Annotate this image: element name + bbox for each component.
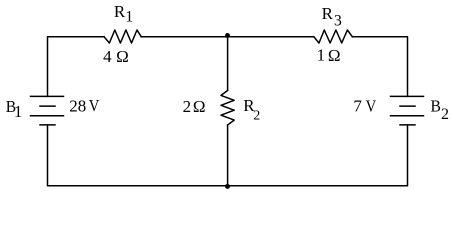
battery B1 plate short	[40, 105, 55, 107]
wire top-right: R3 to right node	[352, 37, 407, 97]
svg-text:Ω: Ω	[193, 97, 206, 116]
svg-text:1: 1	[317, 46, 326, 65]
svg-text:V: V	[89, 96, 100, 115]
wire: R1 to top node	[141, 36, 227, 38]
wire: top node down to R2	[227, 37, 229, 91]
svg-text:7: 7	[353, 97, 362, 116]
svg-text:1: 1	[14, 102, 23, 121]
node junction dot top	[225, 33, 230, 38]
svg-text:Ω: Ω	[116, 47, 129, 66]
resistor R3	[314, 30, 353, 43]
resistor R2	[221, 91, 234, 126]
battery B1 plate long top	[31, 95, 64, 97]
wire top-left: left node to R1	[48, 37, 105, 97]
wire: top node to R3	[228, 36, 314, 38]
wire bottom-right: bottom rail to B2	[228, 125, 408, 186]
node junction dot bottom	[225, 184, 230, 189]
svg-text:R: R	[114, 2, 126, 21]
svg-text:Ω: Ω	[328, 46, 341, 65]
svg-text:28: 28	[69, 96, 86, 115]
battery B2 plate short bottom	[400, 124, 415, 126]
svg-text:1: 1	[125, 9, 133, 26]
wire bottom-left: B1 to bottom rail	[48, 125, 228, 186]
battery B1 plate short bottom	[40, 124, 55, 126]
svg-text:4: 4	[103, 47, 112, 66]
svg-text:2: 2	[183, 97, 192, 116]
battery B2 plate short	[400, 105, 415, 107]
svg-text:3: 3	[334, 12, 342, 29]
svg-text:V: V	[366, 97, 377, 116]
battery B2 plate long top	[391, 95, 424, 97]
svg-text:2: 2	[253, 109, 260, 124]
resistor R1	[104, 30, 141, 43]
svg-text:2: 2	[441, 106, 449, 123]
wire: R2 down to bottom node	[227, 125, 229, 186]
battery B1 plate long	[31, 115, 64, 117]
svg-text:R: R	[322, 4, 334, 23]
battery B2 plate long	[391, 115, 424, 117]
svg-text:B: B	[431, 97, 441, 116]
